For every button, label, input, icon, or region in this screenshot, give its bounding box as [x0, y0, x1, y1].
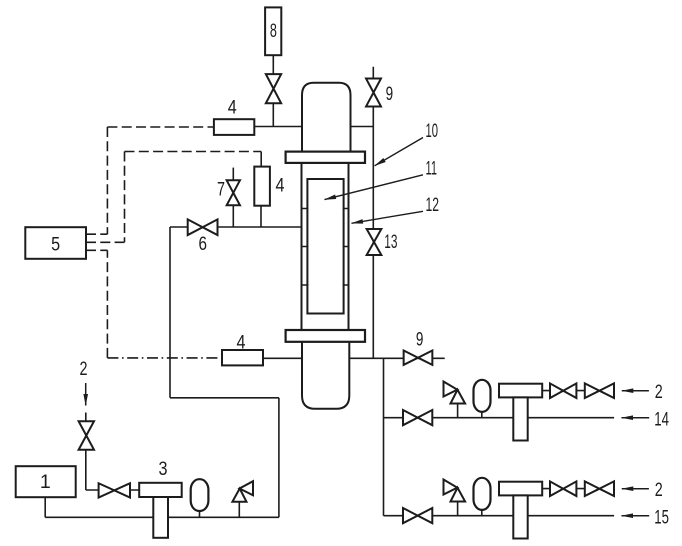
svg-text:14: 14 — [654, 408, 669, 430]
svg-text:5: 5 — [51, 234, 60, 256]
svg-text:6: 6 — [199, 233, 208, 255]
svg-text:2: 2 — [655, 381, 663, 403]
svg-text:12: 12 — [426, 194, 440, 216]
svg-text:7: 7 — [217, 179, 225, 201]
svg-text:9: 9 — [386, 83, 394, 105]
svg-text:3: 3 — [159, 458, 168, 480]
svg-text:4: 4 — [276, 175, 285, 197]
svg-text:2: 2 — [80, 358, 88, 380]
svg-text:13: 13 — [384, 231, 397, 253]
svg-text:9: 9 — [416, 328, 424, 350]
svg-text:10: 10 — [426, 120, 439, 142]
svg-text:1: 1 — [40, 471, 51, 493]
svg-text:4: 4 — [237, 332, 246, 354]
svg-text:8: 8 — [270, 20, 277, 42]
svg-text:4: 4 — [228, 96, 237, 118]
svg-text:11: 11 — [426, 158, 438, 180]
svg-text:2: 2 — [655, 479, 663, 501]
svg-text:15: 15 — [654, 506, 669, 528]
